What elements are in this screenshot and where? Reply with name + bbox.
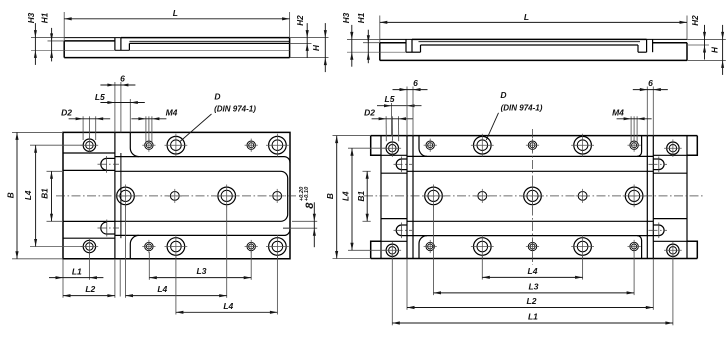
svg-text:B1: B1 [357,191,366,202]
svg-text:D: D [214,92,220,102]
svg-text:L2: L2 [85,284,95,294]
svg-text:L: L [173,8,178,18]
svg-text:6: 6 [120,74,125,84]
svg-text:B: B [326,193,335,199]
svg-text:H3: H3 [342,12,351,23]
svg-text:L: L [524,12,529,22]
svg-text:L1: L1 [72,266,82,276]
svg-text:L4: L4 [341,191,350,201]
svg-text:H3: H3 [27,12,36,23]
svg-text:L5: L5 [95,92,105,102]
svg-text:L2: L2 [527,296,537,306]
svg-text:(DIN 974-1): (DIN 974-1) [501,103,543,112]
svg-text:L4: L4 [223,301,233,311]
svg-text:L3: L3 [197,266,207,276]
svg-text:L4: L4 [157,284,167,294]
svg-text:M4: M4 [166,108,178,118]
svg-text:L3: L3 [529,281,539,291]
svg-text:L1: L1 [528,311,538,321]
svg-text:6: 6 [413,78,418,88]
svg-text:H2: H2 [691,15,700,26]
svg-text:B1: B1 [41,188,50,199]
svg-text:H1: H1 [40,12,49,23]
svg-text:+0.10: +0.10 [304,186,310,201]
svg-text:L4: L4 [24,190,33,200]
svg-text:6: 6 [648,78,653,88]
svg-text:D2: D2 [61,108,72,118]
svg-text:(DIN 974-1): (DIN 974-1) [214,105,256,114]
svg-text:D: D [500,90,506,100]
svg-text:B: B [6,192,15,198]
svg-text:M4: M4 [612,108,624,118]
svg-text:H1: H1 [357,12,366,23]
svg-text:L4: L4 [528,266,538,276]
svg-text:D2: D2 [364,108,375,118]
svg-text:8: 8 [304,202,316,209]
svg-text:L5: L5 [385,94,395,104]
svg-text:H2: H2 [296,15,305,26]
